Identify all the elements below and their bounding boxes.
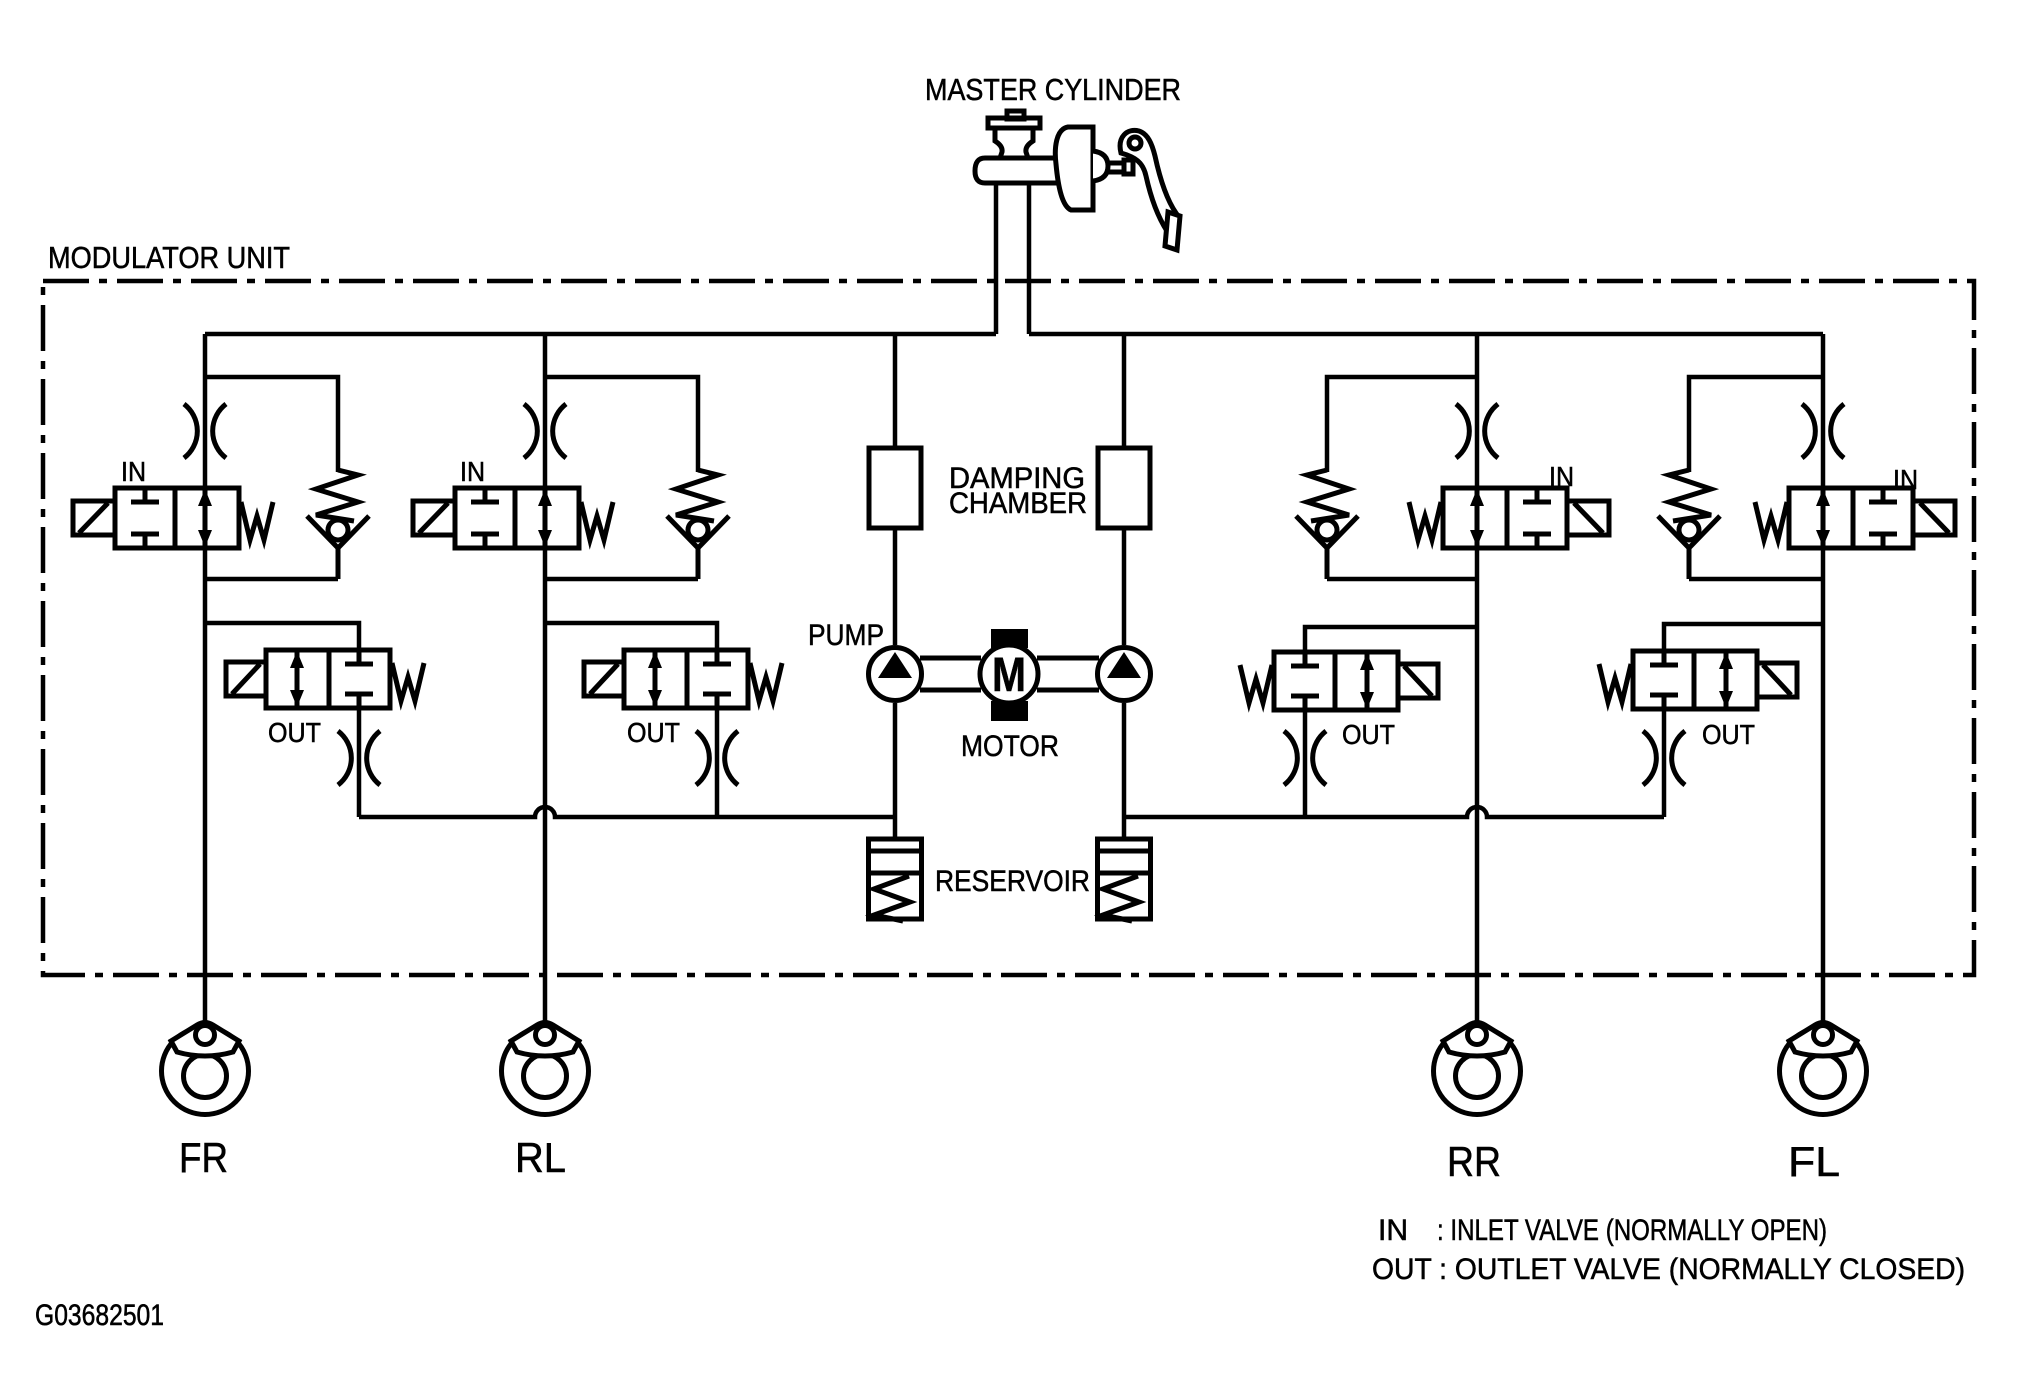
wheel FR xyxy=(162,1023,249,1115)
FR check valve CV1 xyxy=(307,470,369,579)
right reservoir R2 xyxy=(1095,839,1153,921)
motor M1 xyxy=(920,629,1099,721)
svg-text:IN: IN xyxy=(1378,1214,1408,1247)
svg-text:OUT: OUT xyxy=(268,717,321,748)
svg-text:IN: IN xyxy=(1549,461,1574,492)
right pump P2 xyxy=(1098,648,1151,701)
svg-text:FR: FR xyxy=(179,1134,228,1181)
pedal pivot hole xyxy=(1129,137,1141,149)
RL outlet fitting xyxy=(696,731,738,785)
left damping chamber xyxy=(869,448,921,528)
master cylinder outlet pipe 2 xyxy=(1027,183,1032,334)
wheel RL xyxy=(502,1023,589,1115)
svg-text:M: M xyxy=(992,649,1026,702)
RL line fitting xyxy=(524,404,566,458)
master cylinder body xyxy=(975,158,1060,183)
svg-text:MODULATOR UNIT: MODULATOR UNIT xyxy=(48,240,290,275)
RL outlet valve OUT2 xyxy=(584,650,782,708)
master cylinder reservoir cap knob xyxy=(1007,111,1024,119)
svg-text:OUT: OUT xyxy=(1702,719,1755,750)
RL outlet branch wire xyxy=(545,623,717,817)
motor lower mount xyxy=(991,701,1028,721)
channel RL wire xyxy=(543,334,548,1023)
wires and components inserted below xyxy=(43,111,1974,1115)
motor upper mount xyxy=(991,629,1028,648)
wheel RR xyxy=(1434,1023,1521,1115)
RL bypass loop wire xyxy=(545,377,698,579)
left return wire with crossover hop xyxy=(359,807,895,817)
right damping chamber xyxy=(1098,448,1150,528)
motor body circle xyxy=(980,645,1038,703)
FL outlet fitting xyxy=(1643,731,1685,785)
svg-text:CHAMBER: CHAMBER xyxy=(949,487,1087,520)
svg-text:OUT: OUT xyxy=(1342,719,1395,750)
master cylinder reservoir neck xyxy=(995,128,1033,158)
channel FL wire xyxy=(1821,334,1826,1023)
channel FR wire xyxy=(203,334,208,1023)
motor shaft right xyxy=(1037,658,1099,690)
FL line fitting xyxy=(1802,404,1844,458)
FL bypass loop wire xyxy=(1689,377,1823,579)
RR inlet valve IN3 xyxy=(1409,488,1609,548)
motor shaft left xyxy=(920,658,981,690)
master cylinder reservoir cap plate xyxy=(988,118,1040,128)
modulator unit boundary xyxy=(43,281,1974,975)
RR line fitting xyxy=(1456,404,1498,458)
FR outlet branch wire xyxy=(205,623,359,817)
FR outlet fitting xyxy=(338,731,380,785)
svg-text:RESERVOIR: RESERVOIR xyxy=(935,865,1090,898)
master cylinder U1 xyxy=(975,111,1180,250)
svg-text:G03682501: G03682501 xyxy=(35,1299,164,1332)
left pump circuit wire xyxy=(893,334,898,841)
FR outlet valve OUT1 xyxy=(226,650,424,708)
FL check valve CV4 xyxy=(1658,470,1720,579)
svg-text:OUT: OUT xyxy=(627,717,680,748)
svg-text:: INLET VALVE (NORMALLY OPEN): : INLET VALVE (NORMALLY OPEN) xyxy=(1437,1214,1827,1247)
left reservoir R1 xyxy=(866,839,924,921)
brake pedal arm xyxy=(1120,130,1176,231)
pushrod xyxy=(1106,163,1125,172)
RR outlet fitting xyxy=(1284,731,1326,785)
RR outlet valve OUT3 xyxy=(1240,652,1438,710)
svg-text:MOTOR: MOTOR xyxy=(961,730,1059,763)
svg-text:IN: IN xyxy=(460,456,485,487)
FL outlet branch wire xyxy=(1664,624,1823,817)
FR line fitting xyxy=(184,404,226,458)
left pump P1 xyxy=(869,648,922,701)
svg-text:MASTER CYLINDER: MASTER CYLINDER xyxy=(925,72,1181,107)
svg-text:IN: IN xyxy=(121,456,146,487)
FL outlet valve OUT4 xyxy=(1599,651,1797,709)
RR check valve CV3 xyxy=(1296,470,1358,579)
brake pedal pad xyxy=(1165,212,1180,250)
brake booster xyxy=(1055,127,1093,210)
svg-text:IN: IN xyxy=(1893,464,1918,495)
master cylinder outlet pipe 1 xyxy=(994,183,999,334)
RL check valve CV2 xyxy=(667,470,729,579)
FR bypass loop wire xyxy=(205,377,338,579)
wheel FL xyxy=(1780,1023,1867,1115)
FR inlet valve IN1 xyxy=(73,488,273,548)
left circuit supply bus xyxy=(205,332,996,337)
channel RR wire xyxy=(1475,334,1480,1023)
right circuit supply bus xyxy=(1029,332,1823,337)
FL inlet valve IN4 xyxy=(1755,488,1955,548)
pushrod end block xyxy=(1124,160,1133,174)
svg-text:PUMP: PUMP xyxy=(808,619,884,652)
svg-text:OUT : OUTLET VALVE (NORMALLY C: OUT : OUTLET VALVE (NORMALLY CLOSED) xyxy=(1372,1253,1965,1286)
right return wire with crossover hop xyxy=(1124,807,1664,817)
right pump circuit wire xyxy=(1122,334,1127,841)
RR outlet branch wire xyxy=(1305,627,1477,817)
booster pushrod cone xyxy=(1093,151,1108,181)
RL inlet valve IN2 xyxy=(413,488,613,548)
svg-text:RL: RL xyxy=(515,1134,566,1181)
svg-text:RR: RR xyxy=(1447,1138,1501,1185)
RR bypass loop wire xyxy=(1327,377,1477,579)
svg-text:FL: FL xyxy=(1788,1138,1840,1185)
